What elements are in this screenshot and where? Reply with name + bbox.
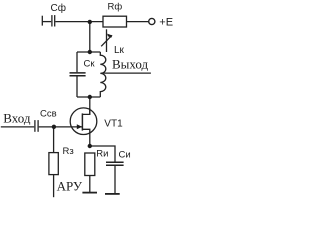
wire Rи to ground [89,176,91,193]
tank bottom wire [77,96,100,98]
svg-text:АРУ: АРУ [57,178,83,193]
tank bottom junction dot [88,95,92,99]
gate arrowhead [77,124,82,129]
resistor Rф [103,16,127,27]
capacitor Ск top lead [76,52,78,72]
svg-text:Rф: Rф [108,2,123,13]
svg-text:Ссв: Ссв [40,108,57,119]
capacitor Си plates [106,161,124,163]
svg-text:Вход: Вход [3,110,31,125]
transistor drain lead [82,108,89,114]
wire Си to ground [114,166,116,193]
capacitor Ск plates [70,72,86,74]
svg-text:Rи: Rи [96,148,108,159]
inductor Lк coil [100,52,106,97]
resistor Rи [85,153,95,176]
tank top junction dot [88,50,92,54]
wire gate node down to R3 [53,127,55,153]
terminal +E circle [149,18,155,24]
svg-text:Выход: Выход [112,57,149,72]
tank top wire [77,51,100,53]
wire to gate [39,126,82,128]
wire [55,21,103,23]
transistor channel [81,113,83,130]
terminal tick (input of Сф) [41,16,43,26]
transistor VT1 circle [70,108,97,135]
svg-text:Сф: Сф [51,2,66,14]
wire [42,21,51,23]
wire tank bottom to transistor drain [89,97,91,114]
svg-text:VT1: VT1 [104,119,123,130]
wire [127,21,149,23]
trimmer arrow diagonal [101,35,112,46]
svg-text:Lк: Lк [114,45,125,56]
trimmer arrow barb [107,34,112,38]
svg-text:Си: Си [119,149,131,160]
svg-text:Rз: Rз [63,146,74,157]
svg-text:Ск: Ск [84,58,96,69]
capacitor Ск bottom lead [76,76,78,97]
wire АРУ [53,175,55,198]
source junction dot [88,144,92,148]
capacitor Ссв plates [34,120,36,132]
node A junction dot [88,20,92,24]
ground under Си [105,193,120,195]
resistor Rз [49,153,58,175]
wire source node to Си [90,146,115,162]
capacitor Сф plates [51,15,53,26]
output tap wire [101,72,151,74]
wire vertical from node A down to tank [89,22,91,52]
trimmer core line [106,29,108,52]
gate junction dot [52,125,56,129]
input wire [1,126,34,128]
transistor source lead [82,129,89,146]
ground under Rи [82,192,97,194]
svg-text:+Е: +Е [159,16,173,28]
